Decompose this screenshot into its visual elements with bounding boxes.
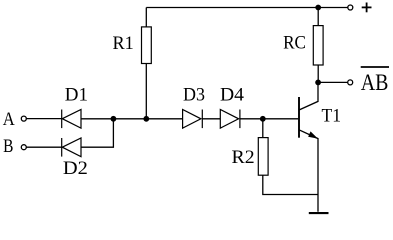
wire D3 to D4 — [202, 118, 220, 120]
svg-text:D4: D4 — [220, 84, 245, 105]
emitter arrow — [309, 132, 317, 138]
wire AB overline — [361, 66, 389, 68]
wire R2 top lead — [262, 119, 264, 138]
emitter lead — [299, 130, 318, 212]
svg-text:D3: D3 — [183, 84, 205, 105]
terminal + (open circle) — [348, 5, 353, 10]
diode D4 — [220, 110, 240, 129]
terminal A (open circle) — [21, 116, 26, 121]
svg-text:RC: RC — [283, 32, 306, 53]
svg-text:D2: D2 — [63, 158, 88, 179]
svg-text:B: B — [3, 136, 13, 157]
node junction top rail / RC — [315, 5, 321, 11]
wire RC bottom lead — [317, 65, 319, 82]
diode D1 — [62, 110, 81, 129]
svg-text:R1: R1 — [113, 33, 134, 54]
transistor T1 — [299, 85, 318, 212]
wire B input — [26, 146, 61, 148]
wire D4 to base — [240, 118, 298, 120]
node junction R2 — [260, 116, 266, 122]
svg-text:R2: R2 — [232, 147, 255, 168]
node junction A/B — [111, 116, 117, 122]
resistor RC — [313, 26, 323, 65]
svg-text:T1: T1 — [322, 105, 342, 126]
wire top supply rail — [146, 7, 347, 9]
label + — [362, 3, 372, 13]
svg-text:D1: D1 — [65, 84, 88, 105]
svg-text:A: A — [3, 109, 15, 130]
wire A input — [26, 118, 61, 120]
wire R1 bottom lead — [145, 64, 147, 119]
wire R1 top lead — [145, 8, 147, 27]
wire R2 bottom lead — [263, 175, 318, 194]
wire RC top lead — [317, 8, 319, 26]
diode D3 — [183, 110, 203, 129]
terminal B (open circle) — [21, 145, 26, 150]
resistor R2 — [258, 138, 268, 176]
base bar — [298, 97, 300, 138]
ground — [309, 212, 329, 214]
svg-text:AB: AB — [361, 70, 389, 96]
resistor R1 — [142, 27, 152, 64]
wire B to node — [81, 119, 113, 147]
collector lead — [299, 85, 318, 110]
diode D2 — [62, 138, 81, 157]
wire main node line — [81, 118, 183, 120]
terminal AB output (open circle) — [348, 80, 353, 85]
node junction R1 — [143, 116, 149, 122]
wire output — [318, 81, 348, 83]
node collector junction — [315, 80, 321, 86]
